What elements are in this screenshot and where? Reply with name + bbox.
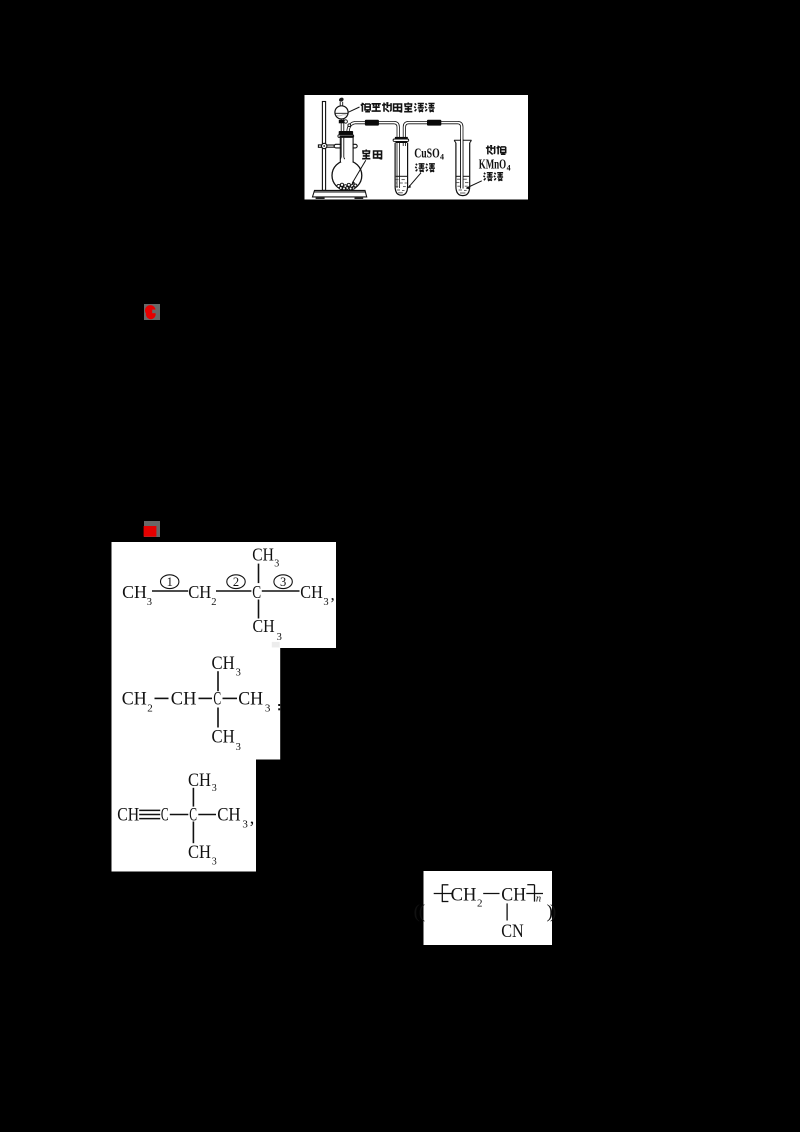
svg-text:2: 2 <box>233 575 239 589</box>
svg-text:CH: CH <box>238 689 263 710</box>
svg-text:2: 2 <box>477 898 483 910</box>
svg-text:3: 3 <box>323 597 328 608</box>
svg-text:CN: CN <box>501 921 524 942</box>
svg-text:3: 3 <box>212 783 217 794</box>
svg-text:CH: CH <box>117 805 139 826</box>
svg-text:CH: CH <box>212 727 235 748</box>
svg-text:3: 3 <box>147 597 152 608</box>
svg-text:1: 1 <box>167 575 173 589</box>
svg-text:CH: CH <box>501 885 526 906</box>
svg-text:3: 3 <box>236 668 241 679</box>
svg-text:C: C <box>213 689 221 710</box>
svg-text:CH: CH <box>217 805 241 826</box>
svg-text:CH: CH <box>122 689 147 710</box>
svg-text:CH: CH <box>188 842 211 863</box>
svg-text:CH: CH <box>252 545 274 565</box>
svg-text:CH: CH <box>122 582 147 602</box>
svg-text:CH: CH <box>212 653 235 674</box>
svg-text:3: 3 <box>242 819 248 831</box>
svg-text:CH: CH <box>188 582 211 602</box>
svg-text:4: 4 <box>440 152 444 161</box>
svg-text:CH: CH <box>451 885 477 906</box>
svg-text:C: C <box>161 805 169 826</box>
svg-text:n: n <box>536 893 541 904</box>
svg-text:3: 3 <box>277 632 282 643</box>
svg-text:3: 3 <box>274 559 279 570</box>
svg-text:): ) <box>550 902 556 923</box>
svg-text:CuSO: CuSO <box>414 145 440 160</box>
svg-text:CH: CH <box>300 582 323 602</box>
svg-text:4: 4 <box>507 163 511 172</box>
svg-text:2: 2 <box>147 703 153 715</box>
svg-text:3: 3 <box>212 857 217 868</box>
svg-text:,: , <box>250 808 255 828</box>
svg-text:(: ( <box>414 902 420 923</box>
svg-text:CH: CH <box>188 770 211 791</box>
svg-text:2: 2 <box>211 597 216 608</box>
svg-text:3: 3 <box>265 703 271 715</box>
svg-text:KMnO: KMnO <box>479 157 507 172</box>
svg-text:CH: CH <box>171 689 197 710</box>
svg-text:C: C <box>252 582 261 602</box>
svg-text:3: 3 <box>280 575 286 589</box>
svg-text:CH: CH <box>253 616 275 636</box>
svg-text:3: 3 <box>236 742 241 753</box>
svg-text:,: , <box>331 585 335 604</box>
